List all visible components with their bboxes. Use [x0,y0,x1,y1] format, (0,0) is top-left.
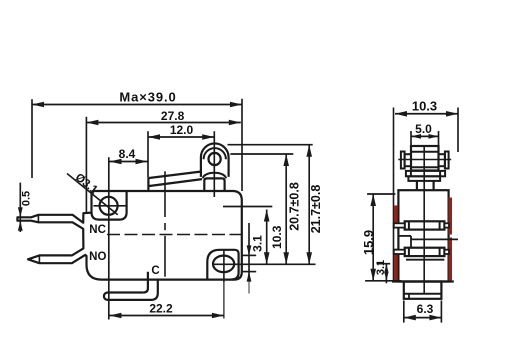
side 6.3 extension lines [403,301,405,323]
bottom-right mounting hole boss [207,250,238,280]
side roller axle pin left [401,152,405,169]
side axle centerline [398,159,451,161]
extension line x=223.9 bottom hole center [223,282,225,319]
svg-text:15.9: 15.9 [361,230,376,255]
extension line x=214.3 roller centerline [213,131,215,197]
side body rectangle [398,190,448,281]
side terminal slot 2 right tab [444,250,449,254]
side terminal slot 1 right tab [444,223,449,227]
terminal C inner bend [143,272,148,293]
side foot block [404,282,442,299]
line below slot 2 [406,259,444,261]
side dimension 6.3 foot width [404,317,442,319]
side dimension 3.1 [385,264,387,284]
extension line x=86.4 body left edge [85,117,87,212]
lever left end vertical [147,178,149,192]
dimension 20.7±0.8 [285,154,287,264]
dimension 10.3 hole center to hole center vertical [266,210,268,265]
roller axle pin circle [209,153,221,165]
side roller inner band lines [411,151,439,153]
dimension 3.1 bottom hole vertical diameter [248,223,250,281]
svg-text:C: C [151,265,159,277]
svg-text:20.7±0.8: 20.7±0.8 [288,182,302,231]
side lever plate [406,171,445,176]
extension line left of Ma×39.0 [31,99,33,178]
leader Ø3.1 for mounting hole diameter [67,174,118,215]
extension line x=108.8 through top-left hole center [108,157,110,319]
vertical centerline through lever pivot / C terminal [164,171,166,217]
svg-text:22.2: 22.2 [149,302,173,316]
common bottom extension line at hole center height [213,263,316,265]
dimension 12.0 lever pivot to roller center [148,136,214,138]
clevis bottom arc over plunger [203,173,226,179]
svg-text:NC: NC [89,224,106,236]
side internal step lines [398,235,411,237]
terminal NO blade chevron line [38,255,40,263]
plunger below roller [204,178,224,191]
svg-text:3.1: 3.1 [251,235,265,252]
side view dimension 10.3 width [395,113,458,115]
lever strip bottom edge [149,179,202,186]
red highlight left upper [394,205,398,223]
side dimension 15.9 body height [372,194,374,281]
roller edge arc [204,148,226,159]
dimension 8.4 hole center to lever pivot [110,161,148,163]
red highlight right upper [448,198,452,235]
svg-text:Ma×39.0: Ma×39.0 [119,90,176,105]
side terminal slot 1 [405,221,445,229]
svg-text:NO: NO [89,251,106,263]
side terminal slot 2 [405,248,445,256]
svg-text:0.5: 0.5 [21,191,33,206]
side 10.3 right extension [457,108,459,153]
svg-text:10.3: 10.3 [412,98,437,113]
svg-text:21.7±0.8: 21.7±0.8 [309,185,323,234]
side view dimension 5.0 roller width [411,135,439,137]
dimension Ma×39.0 overall length [32,104,242,106]
red highlight left lower [394,249,398,281]
side roller box [411,146,439,171]
dimension 22.2 hole to hole horizontal [109,315,223,317]
svg-text:6.3: 6.3 [417,302,434,316]
side plunger narrow part [416,181,418,190]
extension line x=148 lever pivot [147,131,149,177]
side left outer edge / extension line [393,108,395,282]
side vertical centerline [423,147,425,294]
bottom-right mounting hole (ellipse) [213,256,234,273]
dashed centerline through body [107,234,242,236]
side body bottom edge full width [392,280,454,282]
side plunger wide part [408,176,440,181]
svg-text:8.4: 8.4 [119,147,136,161]
side terminal slot 2 left tab [394,250,405,254]
terminal NC blade chevron line [37,215,39,223]
svg-text:3.1: 3.1 [375,260,387,275]
dimension 0.5 terminal thickness [19,183,21,232]
svg-text:27.8: 27.8 [161,109,185,123]
svg-text:12.0: 12.0 [170,123,194,137]
dimension 21.7±0.8 [308,145,310,265]
extension line right x=242 [241,99,243,191]
top-left mounting hole Ø3.1 [100,197,118,215]
top-left mounting hole boss [92,191,127,220]
roller clevis outline [201,143,229,176]
side terminal slot 1 left tab [394,223,405,227]
switch body outline (front view) [17,191,241,280]
dimension 27.8 [86,122,240,124]
bottom hole crosshair vertical [223,250,225,282]
red highlight right lower [448,238,452,281]
lever strip top edge [149,172,201,178]
svg-text:5.0: 5.0 [415,122,432,136]
side 5.0 extension lines [410,131,412,146]
terminal C bent blade outer contour [104,279,158,300]
top-left hole crosshair horizontal [93,205,126,207]
svg-text:10.3: 10.3 [270,225,284,249]
side roller axle pin right [439,154,445,166]
